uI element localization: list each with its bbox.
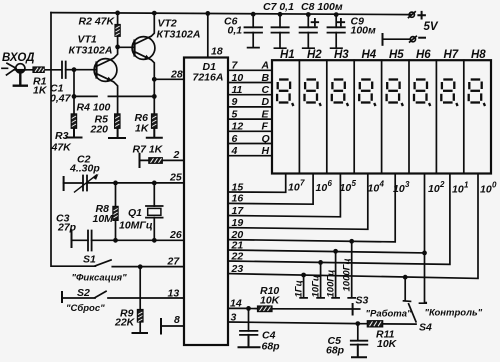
svg-text:H4: H4 [362, 49, 377, 61]
svg-text:13: 13 [168, 288, 180, 300]
svg-text:H7: H7 [444, 49, 459, 61]
svg-text:10Гц: 10Гц [311, 275, 322, 298]
svg-text:100Гц: 100Гц [326, 270, 337, 298]
svg-text:H1: H1 [280, 49, 295, 61]
svg-text:R2 47K: R2 47K [79, 16, 116, 28]
svg-text:R7 1K: R7 1K [133, 144, 164, 156]
svg-text:6: 6 [328, 179, 333, 188]
svg-text:10МГц: 10МГц [119, 220, 153, 232]
svg-text:100м: 100м [351, 25, 377, 37]
svg-text:4..30p: 4..30p [69, 163, 100, 175]
svg-text:10M: 10M [93, 213, 114, 225]
svg-text:R3: R3 [55, 130, 69, 142]
svg-text:22: 22 [231, 250, 244, 262]
svg-text:23: 23 [231, 263, 244, 275]
svg-text:9: 9 [232, 96, 238, 108]
svg-text:B: B [262, 72, 270, 84]
svg-text:F: F [262, 121, 269, 133]
svg-text:2: 2 [439, 180, 445, 189]
svg-text:A: A [261, 60, 270, 72]
svg-text:10: 10 [393, 183, 405, 195]
svg-text:19: 19 [232, 217, 244, 229]
svg-text:D: D [262, 96, 270, 108]
svg-text:H3: H3 [334, 49, 349, 61]
svg-text:8: 8 [174, 314, 180, 326]
svg-text:0,47: 0,47 [50, 93, 72, 105]
svg-text:7216A: 7216A [193, 72, 224, 84]
svg-text:10: 10 [452, 184, 464, 196]
svg-text:S1: S1 [83, 254, 96, 266]
svg-text:E: E [262, 108, 270, 120]
svg-text:H2: H2 [307, 49, 322, 61]
svg-text:ВХОД: ВХОД [2, 52, 34, 64]
svg-text:"Фиксация": "Фиксация" [72, 273, 128, 284]
svg-text:Q: Q [262, 133, 270, 145]
svg-text:H6: H6 [416, 49, 431, 61]
svg-text:1K: 1K [135, 123, 150, 135]
svg-text:C8 100м: C8 100м [301, 1, 343, 13]
svg-text:12: 12 [232, 121, 244, 133]
svg-text:H5: H5 [389, 49, 404, 61]
svg-text:3: 3 [405, 180, 410, 189]
svg-text:"Работа": "Работа" [366, 309, 413, 320]
svg-text:10: 10 [316, 182, 328, 194]
svg-text:22K: 22K [114, 317, 136, 329]
svg-text:7: 7 [300, 179, 305, 188]
svg-text:17: 17 [232, 205, 245, 217]
svg-text:S4: S4 [419, 322, 432, 334]
svg-text:3: 3 [231, 312, 237, 324]
svg-text:27p: 27p [57, 222, 77, 234]
svg-text:10K: 10K [377, 338, 398, 350]
svg-text:1K: 1K [33, 85, 48, 97]
svg-text:10: 10 [288, 182, 300, 194]
svg-text:"Контроль": "Контроль" [425, 308, 483, 319]
svg-text:1: 1 [464, 181, 469, 190]
svg-text:1Гц: 1Гц [294, 280, 305, 297]
svg-text:10: 10 [428, 183, 440, 195]
svg-text:Q1: Q1 [128, 207, 142, 219]
svg-text:14: 14 [230, 298, 242, 310]
svg-text:16: 16 [232, 193, 244, 205]
svg-text:11: 11 [232, 84, 243, 96]
svg-text:S2: S2 [77, 287, 90, 299]
svg-text:68p: 68p [262, 341, 281, 353]
svg-text:1000Гц: 1000Гц [342, 258, 353, 291]
svg-text:R4 100: R4 100 [77, 102, 111, 114]
svg-text:68p: 68p [326, 345, 345, 357]
svg-text:0,1: 0,1 [228, 25, 243, 37]
svg-text:"Сброс": "Сброс" [66, 303, 105, 314]
svg-text:15: 15 [232, 181, 244, 193]
svg-text:4: 4 [231, 145, 238, 157]
svg-text:5: 5 [232, 108, 238, 120]
svg-text:КТ3102А: КТ3102А [69, 45, 113, 57]
svg-text:10: 10 [232, 72, 244, 84]
svg-text:27: 27 [167, 256, 181, 268]
svg-text:10: 10 [368, 183, 380, 195]
svg-text:6: 6 [232, 133, 238, 145]
svg-text:H: H [262, 145, 270, 157]
svg-text:25: 25 [169, 172, 182, 184]
svg-text:4: 4 [379, 180, 385, 189]
svg-text:28: 28 [170, 69, 183, 81]
svg-text:S3: S3 [356, 295, 369, 307]
svg-text:26: 26 [169, 229, 182, 241]
svg-text:КТ3102А: КТ3102А [157, 29, 201, 41]
svg-text:10K: 10K [260, 295, 281, 307]
svg-text:220: 220 [90, 124, 109, 136]
svg-text:10: 10 [340, 182, 352, 194]
svg-text:2: 2 [173, 149, 180, 161]
svg-text:H8: H8 [471, 49, 486, 61]
svg-text:10: 10 [480, 184, 492, 196]
svg-text:5V: 5V [424, 21, 439, 33]
svg-text:47K: 47K [51, 142, 73, 154]
svg-text:18: 18 [211, 46, 223, 58]
svg-text:C7 0,1: C7 0,1 [263, 1, 294, 13]
svg-text:5: 5 [352, 179, 357, 188]
svg-text:0: 0 [492, 181, 497, 190]
svg-text:C: C [262, 84, 270, 96]
